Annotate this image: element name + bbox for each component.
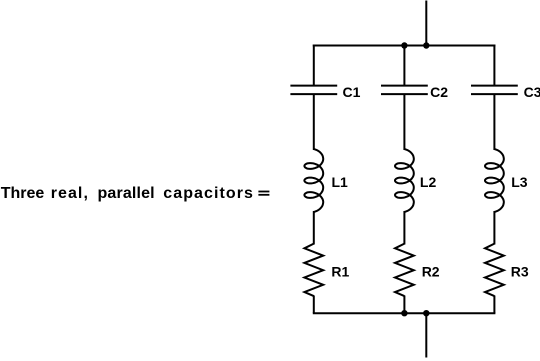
svg-text:L3: L3 [511, 174, 528, 190]
node: junction dot bottom right [423, 310, 429, 316]
wire: L2 to R2 [403, 211, 405, 245]
wire: R2 to bottom bus [403, 296, 405, 314]
capacitor C2 [381, 86, 428, 95]
wire: lead from top bus to C1 [313, 45, 315, 86]
resistor R2 [395, 244, 414, 297]
wire: top external lead [425, 1, 427, 46]
wire: C3 to L3 [493, 94, 495, 150]
svg-text:Three: Three [1, 185, 45, 202]
node: junction dot top right [423, 42, 429, 48]
svg-text:capacitors: capacitors [163, 185, 253, 202]
svg-text:C1: C1 [343, 84, 361, 100]
wire: R1 to bottom bus [313, 296, 315, 314]
resistor R3 [485, 244, 504, 297]
inductor L3 [485, 149, 504, 212]
node: junction dot bottom left [401, 310, 407, 316]
svg-text:real,: real, [51, 185, 88, 202]
wire: L1 to R1 [313, 211, 315, 245]
caption: Three real, parallel capacitors = [1, 185, 253, 202]
resistor R1 [304, 244, 323, 297]
svg-text:parallel: parallel [98, 185, 155, 202]
wire: top bus [313, 45, 496, 47]
wire: bottom bus [313, 312, 496, 314]
svg-text:R3: R3 [511, 263, 529, 279]
capacitor C1 [290, 86, 337, 95]
svg-text:C2: C2 [430, 84, 448, 100]
wire: bottom external lead [425, 313, 427, 357]
wire: C1 to L1 [313, 94, 315, 150]
svg-text:R1: R1 [331, 263, 349, 279]
capacitor C3 [471, 86, 518, 95]
wire: R3 to bottom bus [493, 296, 495, 314]
wire: L3 to R3 [493, 211, 495, 245]
svg-text:R2: R2 [422, 263, 440, 279]
wire: lead from top bus to C2 [403, 45, 405, 86]
inductor L2 [395, 149, 414, 212]
inductor L1 [304, 149, 323, 212]
caption: equals sign [258, 191, 269, 196]
svg-text:L2: L2 [420, 174, 437, 190]
svg-text:C3: C3 [524, 84, 540, 100]
svg-text:L1: L1 [332, 174, 349, 190]
wire: C2 to L2 [403, 94, 405, 150]
node: junction dot top left [401, 42, 407, 48]
wire: lead from top bus to C3 [493, 45, 495, 86]
